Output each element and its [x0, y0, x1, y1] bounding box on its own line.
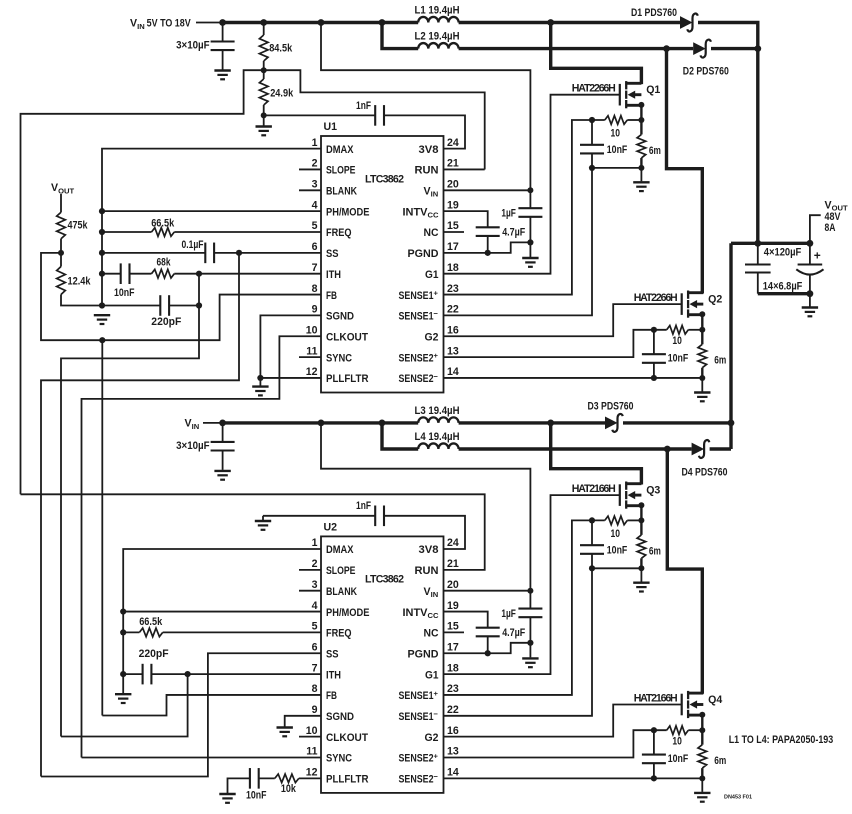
svg-text:3×10µF: 3×10µF	[176, 40, 210, 52]
wire bus to 0.1uF	[102, 252, 205, 254]
resistor 10 Q2	[667, 326, 689, 335]
wire 4.7uF to U2 PGND	[487, 636, 489, 653]
resistor 66.5k U1	[152, 228, 175, 237]
wire 475k to FB node	[60, 239, 62, 253]
diode D4 PDS760	[692, 443, 705, 456]
svg-text:L2 19.4µH: L2 19.4µH	[415, 31, 460, 43]
wire FB bus to U2 FB	[102, 695, 321, 716]
junction SGND/PLLFLTR	[257, 375, 263, 381]
wire 10nF to U2 SENSE1-	[444, 554, 593, 716]
capacitor 10nF Q3	[580, 545, 604, 554]
wire U2 G2 to Q4 gate	[444, 705, 682, 737]
wire U2 G1 to Q3 gate	[444, 495, 620, 674]
wire to ceramic cap	[757, 243, 759, 264]
capacitor 0.1uF	[205, 243, 214, 264]
wire cap to ground lower	[222, 451, 224, 470]
wire to ground Q2	[701, 378, 703, 392]
svg-text:LTC3862: LTC3862	[365, 173, 404, 185]
wire U1 DMAX/gnd bus	[102, 149, 321, 306]
junction L4/Q4 drain	[664, 446, 671, 453]
wire bus to 66.5k	[102, 231, 152, 233]
wire 10ohm Q2 to source vert	[688, 329, 702, 331]
svg-text:10: 10	[306, 324, 318, 336]
wire rail to C 3x10uF	[222, 23, 224, 42]
svg-text:6m: 6m	[649, 145, 661, 157]
capacitor 10nF Q2	[642, 354, 666, 363]
svg-text:L3 19.4µH: L3 19.4µH	[415, 405, 460, 417]
capacitor 10nF PLL	[250, 768, 259, 789]
capacitor 3x10uF input	[211, 42, 235, 51]
wire 24.9k node to 1nF	[264, 114, 376, 116]
junction 6m bottom Q4	[699, 775, 705, 781]
junction bus/PH-MODE	[99, 208, 105, 214]
svg-text:SS: SS	[326, 248, 339, 260]
wire rail to 84.5k	[263, 23, 265, 36]
svg-text:1µF: 1µF	[501, 207, 516, 219]
wire Q2 source down	[701, 314, 703, 344]
svg-text:FREQ: FREQ	[326, 628, 352, 640]
svg-text:G2: G2	[425, 732, 439, 744]
wire D2 to output bus	[711, 47, 758, 50]
svg-text:14×6.8µF: 14×6.8µF	[763, 280, 803, 292]
svg-text:220pF: 220pF	[151, 316, 182, 328]
ground U2 signal bus	[115, 694, 131, 703]
wire L2 branch	[382, 23, 418, 49]
wire 1nF to U2 3V8	[384, 516, 465, 549]
resistor 68k	[152, 269, 175, 278]
svg-text:SENSE1+: SENSE1+	[399, 288, 439, 301]
svg-text:SGND: SGND	[326, 311, 354, 323]
ground U2 SGND	[277, 728, 293, 737]
inductor L3	[418, 417, 458, 423]
wire output bottom row	[758, 292, 810, 295]
wire U1 NC stub	[444, 231, 465, 233]
svg-text:D4 PDS760: D4 PDS760	[682, 466, 728, 478]
junction bottom row/gnd	[807, 290, 814, 297]
wire 10nF to ground	[228, 778, 250, 793]
svg-text:FB: FB	[326, 690, 337, 702]
junction Q2 source/10ohm	[699, 327, 705, 333]
svg-text:PGND: PGND	[408, 648, 439, 660]
svg-text:Q1: Q1	[646, 84, 660, 96]
svg-text:14: 14	[447, 767, 459, 779]
wire 10nF Q4 down	[653, 763, 655, 778]
wire L3 to D3	[459, 421, 605, 424]
svg-text:12.4k: 12.4k	[68, 276, 91, 288]
wire rail3 to cap	[222, 423, 224, 442]
wire L2 node to Q2 drain	[667, 49, 703, 294]
wire L2 to node	[459, 47, 667, 50]
diode D1 PDS760	[680, 16, 693, 29]
svg-text:L4 19.4µH: L4 19.4µH	[415, 431, 460, 443]
svg-text:1: 1	[312, 137, 318, 149]
diode D2 PDS760	[693, 42, 706, 55]
svg-text:84.5k: 84.5k	[269, 43, 292, 55]
svg-text:20: 20	[447, 579, 459, 591]
junction U2 VIN/1uF	[527, 588, 533, 594]
wire to ground Q4	[701, 778, 703, 792]
svg-text:HAT2266H: HAT2266H	[572, 83, 616, 95]
junction rail/VIN feed	[318, 19, 325, 26]
svg-text:G2: G2	[425, 331, 439, 343]
svg-text:23: 23	[447, 283, 459, 295]
svg-text:10: 10	[611, 127, 621, 139]
svg-text:SYNC: SYNC	[326, 352, 352, 364]
wire 220pF to ITH node U2	[151, 673, 187, 675]
svg-text:L1 TO L4: PAPA2050-193: L1 TO L4: PAPA2050-193	[729, 734, 834, 746]
svg-text:SGND: SGND	[326, 711, 354, 723]
svg-text:D2 PDS760: D2 PDS760	[683, 66, 729, 78]
capacitor 220pF U2	[143, 664, 152, 685]
wire Q4 source down	[701, 715, 703, 745]
svg-text:6: 6	[312, 641, 318, 653]
svg-text:18: 18	[447, 662, 459, 674]
wire 6m to gnd row	[640, 158, 642, 168]
ground Q4 6m	[694, 793, 710, 802]
svg-text:4.7µF: 4.7µF	[502, 627, 525, 639]
inductor L1	[418, 17, 458, 23]
svg-text:1µF: 1µF	[501, 608, 516, 620]
wire 10ohm to U2 SENSE1+	[444, 520, 605, 695]
svg-text:DMAX: DMAX	[326, 144, 354, 156]
svg-text:15: 15	[447, 621, 459, 633]
junction Q2 source	[699, 311, 705, 317]
wire U2 PLLFLTR stub	[299, 777, 321, 779]
wire to 10nF Q1	[591, 120, 593, 145]
wire to ground Q1	[640, 168, 642, 181]
ground 24.9k	[256, 127, 272, 136]
wire U1 SYNC stub	[299, 356, 321, 358]
svg-text:SENSE2−: SENSE2−	[399, 372, 439, 385]
svg-text:21: 21	[447, 558, 459, 570]
wire to ground Q3	[640, 568, 642, 581]
wire VIN lower rail	[223, 421, 419, 424]
junction rail3/Q3 drain	[547, 420, 554, 427]
svg-text:BLANK: BLANK	[326, 186, 357, 198]
wire U2 INTVCC to 4.7uF	[444, 612, 488, 628]
svg-text:11: 11	[306, 746, 317, 758]
svg-text:LTC3862: LTC3862	[365, 574, 404, 586]
diode D3 PDS760	[605, 417, 618, 430]
svg-text:66.5k: 66.5k	[151, 218, 174, 230]
wire electrolytic to row	[809, 275, 811, 294]
svg-text:10: 10	[611, 528, 621, 540]
wire 10nF to SENSE1-	[444, 153, 593, 315]
svg-text:L1 19.4µH: L1 19.4µH	[415, 5, 460, 17]
svg-text:SENSE2+: SENSE2+	[399, 751, 439, 764]
svg-text:SYNC: SYNC	[326, 753, 352, 765]
wire to output ground	[809, 294, 811, 307]
resistor 10 Q3	[605, 516, 628, 525]
svg-text:10: 10	[672, 735, 682, 747]
junction bus2/220pF	[120, 671, 126, 677]
svg-text:U2: U2	[324, 521, 338, 533]
inductor L4	[418, 443, 458, 449]
svg-text:G1: G1	[425, 269, 439, 281]
junction 10nF top Q3	[589, 517, 595, 523]
ground Q2 6m	[694, 393, 710, 402]
svg-text:RUN: RUN	[415, 565, 439, 577]
junction VIN pin/1uF	[527, 187, 533, 193]
junction Q1 source	[638, 102, 644, 108]
svg-text:SENSE2−: SENSE2−	[399, 772, 439, 785]
svg-text:SS: SS	[326, 648, 339, 660]
ground Q3 6m	[633, 583, 649, 592]
junction PGND/4.7uF	[485, 250, 491, 256]
wire FB node to U1 FB	[41, 253, 321, 340]
wire 12.4k to gnd row	[61, 295, 102, 306]
svg-text:1: 1	[312, 537, 318, 549]
svg-text:SENSE1−: SENSE1−	[399, 710, 439, 723]
wire 10k to 10nF	[259, 777, 275, 779]
wire sense gnd row Q3	[592, 567, 641, 569]
capacitor 1uF U2	[518, 609, 542, 618]
wire 220pF to ITH node	[169, 305, 199, 307]
wire 1uF to ground	[529, 217, 531, 257]
junction Q4 source	[699, 712, 705, 718]
capacitor 1uF U1	[518, 208, 542, 217]
wire bus2 to ground	[122, 674, 124, 693]
wire VIN feed to U2	[321, 423, 530, 609]
svg-text:12: 12	[306, 767, 318, 779]
junction U2 ITH node	[185, 671, 191, 677]
wire U1 SGND down	[260, 315, 321, 378]
junction 6m bottom Q3	[638, 565, 644, 571]
wire rail to Q1 drain	[551, 23, 642, 85]
wire VOUT tap	[810, 215, 821, 243]
op-amp U2 LTC3862 box	[321, 536, 444, 793]
svg-text:19: 19	[447, 600, 459, 612]
junction bus/ITH	[99, 271, 105, 277]
wire L4 to node	[459, 447, 668, 450]
wire to 10nF Q4	[653, 730, 655, 754]
ground 1nF U2	[255, 521, 271, 530]
wire U1 SLOPE stub	[299, 168, 321, 170]
junction bus/FREQ	[99, 229, 105, 235]
wire output bus lower	[729, 243, 732, 449]
svg-text:G1: G1	[425, 669, 439, 681]
wire divider to U1 RUN	[264, 70, 485, 169]
wire L4 branch	[382, 423, 418, 449]
junction 220pF/ITH	[196, 302, 202, 308]
svg-text:7: 7	[312, 262, 318, 274]
ground U1 signal bus	[94, 315, 110, 324]
transistor Q4 HAT2166H	[681, 694, 683, 716]
svg-text:8: 8	[312, 283, 318, 295]
capacitor 4.7uF U2	[476, 628, 500, 637]
wire VIN feed to U1 VIN/1uF	[321, 23, 530, 209]
svg-text:CLKOUT: CLKOUT	[326, 331, 368, 343]
wire sense gnd row Q1	[592, 167, 641, 169]
wire D4 to bus	[710, 447, 731, 450]
svg-text:DMAX: DMAX	[326, 544, 354, 556]
svg-text:3: 3	[312, 579, 318, 591]
svg-text:10nF: 10nF	[607, 545, 628, 557]
wire C to ground	[222, 50, 224, 69]
wire L4 node to Q4 drain	[667, 449, 702, 694]
svg-text:BLANK: BLANK	[326, 586, 357, 598]
svg-text:9: 9	[312, 304, 318, 316]
wire U2 PH/MODE to bus	[123, 611, 321, 613]
junction U2 PGND/4.7uF	[485, 650, 491, 656]
svg-text:10nF: 10nF	[607, 144, 628, 156]
svg-text:12: 12	[306, 366, 318, 378]
ground Q1 6m	[633, 182, 649, 191]
wire bus2 to 66.5k	[123, 631, 139, 633]
svg-text:66.5k: 66.5k	[139, 616, 162, 628]
wire U1 PGND jog	[444, 242, 531, 252]
junction U2 SENSE2- row	[651, 775, 657, 781]
svg-text:4×120µF: 4×120µF	[764, 247, 802, 259]
junction 10nF top	[589, 117, 595, 123]
wire FB node to 12.4k	[60, 253, 62, 267]
resistor 6m Q1	[637, 135, 646, 158]
junction rail3/L4 branch	[379, 420, 386, 427]
resistor 10 Q1	[605, 116, 628, 125]
svg-text:7: 7	[312, 662, 318, 674]
wire Q1 source down	[640, 105, 642, 135]
svg-text:17: 17	[447, 241, 459, 253]
ground U1 1uF	[522, 258, 538, 267]
junction 1uF/PGND	[527, 239, 533, 245]
wire 66.5k to U2 FREQ	[163, 631, 321, 633]
wire 10ohm to SENSE1+	[444, 120, 605, 295]
wire 24.9k to ground	[263, 105, 265, 126]
capacitor 3x10uF lower	[211, 442, 235, 451]
svg-text:20: 20	[447, 179, 459, 191]
resistor 10 Q4	[667, 726, 689, 735]
svg-text:10: 10	[306, 725, 318, 737]
resistor 84.5k	[259, 35, 268, 61]
transistor Q1 HAT2266H	[619, 84, 621, 106]
svg-text:15: 15	[447, 220, 459, 232]
junction 24.9k/1nF	[261, 112, 267, 118]
junction 6m bottom Q2	[699, 375, 705, 381]
junction L2/Q2 drain	[663, 45, 670, 52]
wire 10ohm Q4 to source vert	[688, 729, 702, 731]
svg-text:24: 24	[447, 137, 459, 149]
svg-text:5: 5	[312, 621, 318, 633]
svg-text:PLLFLTR: PLLFLTR	[326, 774, 369, 786]
junction bus2/FREQ	[120, 629, 126, 635]
ground 3x10uF lower	[214, 471, 230, 480]
wire Q3 source down	[640, 505, 642, 535]
svg-text:8: 8	[312, 683, 318, 695]
wire U1 PLLFLTR	[260, 377, 321, 379]
junction 10nF top Q2	[651, 327, 657, 333]
wire SGND to ground	[259, 378, 261, 386]
svg-text:10nF: 10nF	[114, 287, 135, 299]
svg-text:1nF: 1nF	[356, 100, 371, 112]
svg-text:10nF: 10nF	[668, 353, 689, 365]
wire 10nF to 68k	[130, 273, 152, 275]
svg-text:3V8: 3V8	[419, 544, 439, 556]
junction U2 1uF/PGND	[527, 640, 533, 646]
wire U2 BLANK stub	[299, 590, 321, 592]
svg-text:24: 24	[447, 537, 459, 549]
wire VIN label lead	[196, 22, 223, 24]
ground 3x10uF	[214, 71, 230, 80]
svg-text:3×10µF: 3×10µF	[176, 440, 210, 452]
svg-text:6m: 6m	[649, 546, 661, 558]
wire to electrolytic	[809, 243, 811, 264]
capacitor 1nF U1	[375, 105, 384, 126]
junction 6m bottom	[638, 165, 644, 171]
svg-text:U1: U1	[324, 121, 338, 133]
svg-text:+: +	[814, 249, 821, 263]
svg-text:6m: 6m	[714, 355, 726, 367]
wire node to D2	[667, 47, 694, 50]
svg-text:PH/MODE: PH/MODE	[326, 607, 370, 619]
svg-text:24.9k: 24.9k	[270, 88, 293, 100]
wire SENSE2- row	[444, 377, 703, 379]
wire 1nF to U1 3V8	[384, 115, 465, 148]
capacitor 220pF U1	[160, 295, 169, 316]
wire RUN bus down-left	[21, 70, 264, 494]
resistor 6m Q2	[698, 344, 707, 367]
junction FB bus drop	[99, 337, 105, 343]
wire U2 NC stub	[444, 631, 465, 633]
svg-text:2: 2	[312, 558, 318, 570]
ground U2 PLL	[219, 794, 235, 803]
resistor 12.4k	[57, 267, 66, 295]
wire U2 DMAX/gnd bus	[123, 549, 321, 674]
junction Q4 source/10ohm	[699, 727, 705, 733]
wire bus2 to 220pF	[123, 673, 142, 675]
svg-text:Q4: Q4	[708, 694, 722, 706]
wire U2 SGND	[285, 716, 321, 727]
wire U1 G1 to Q1 gate	[444, 95, 620, 274]
wire 84.5k to node	[263, 61, 265, 79]
wire VOUT to 475k	[60, 194, 62, 212]
svg-text:RUN: RUN	[415, 165, 439, 177]
resistor 24.9k	[259, 79, 268, 105]
svg-text:SENSE2+: SENSE2+	[399, 351, 439, 364]
wire U1 G2 to Q2 gate	[444, 304, 682, 336]
svg-text:10: 10	[672, 335, 682, 347]
wire U2 SLOPE stub	[299, 569, 321, 571]
svg-text:4: 4	[312, 199, 318, 211]
wire output row	[731, 242, 810, 245]
op-amp U1 LTC3862 box	[321, 136, 444, 393]
svg-text:SENSE1−: SENSE1−	[399, 309, 439, 322]
wire to 10nF Q3	[591, 520, 593, 545]
svg-text:22: 22	[447, 704, 459, 716]
wire bus to 10nF	[102, 273, 121, 275]
svg-text:8A: 8A	[825, 222, 836, 234]
wire 10ohm Q3 to source vert	[627, 519, 641, 521]
svg-text:17: 17	[447, 641, 459, 653]
svg-text:16: 16	[447, 324, 459, 336]
svg-text:HAT2166H: HAT2166H	[572, 483, 616, 495]
wire VIN top rail	[223, 21, 419, 24]
wire ITH bus down	[61, 274, 199, 737]
junction rail/84.5k	[260, 19, 267, 26]
ground output	[802, 308, 818, 317]
svg-text:ITH: ITH	[326, 669, 341, 681]
svg-text:CLKOUT: CLKOUT	[326, 732, 368, 744]
svg-text:4.7µF: 4.7µF	[502, 227, 525, 239]
wire U2 SENSE2- row	[444, 777, 703, 779]
svg-text:22: 22	[447, 304, 459, 316]
capacitor 4x120uF electrolytic	[796, 265, 823, 275]
capacitor 4.7uF U1	[476, 227, 500, 236]
svg-text:3V8: 3V8	[419, 144, 439, 156]
svg-text:Q3: Q3	[646, 485, 660, 497]
svg-text:SENSE1+: SENSE1+	[399, 689, 439, 702]
wire gnd row to 220pF	[102, 305, 160, 307]
svg-text:19: 19	[447, 199, 459, 211]
